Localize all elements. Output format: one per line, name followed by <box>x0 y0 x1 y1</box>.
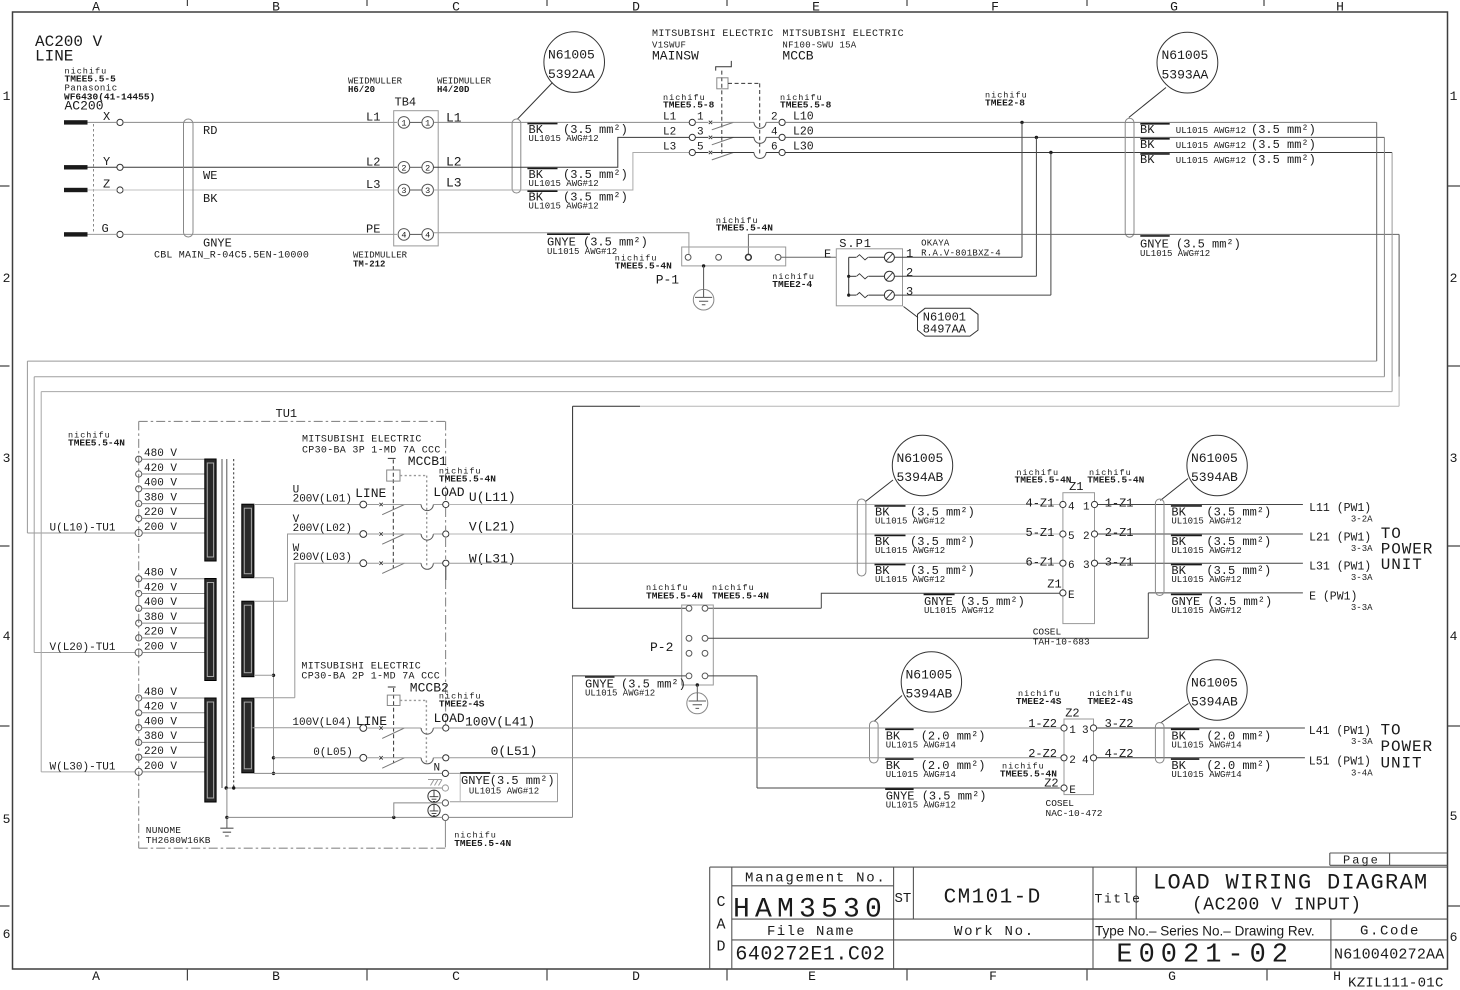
secondary coil 2 <box>242 601 254 677</box>
wire core ground <box>227 787 442 789</box>
svg-text:420 V: 420 V <box>144 582 177 594</box>
svg-text:400 V: 400 V <box>144 597 177 609</box>
svg-text:N61005: N61005 <box>548 48 595 63</box>
TB4 pin 3-3 <box>398 184 410 196</box>
wire P-2 to ground <box>696 685 698 693</box>
svg-text:UL1015 AWG#12: UL1015 AWG#12 <box>469 787 539 797</box>
label BK 3.5mm row2 <box>527 168 557 170</box>
Z1 pins right <box>1091 501 1097 507</box>
svg-text:Z2: Z2 <box>1065 707 1079 721</box>
terminal bar X <box>64 120 88 124</box>
label GNYE out E <box>1171 593 1202 595</box>
svg-text:3-4A: 3-4A <box>1351 769 1373 779</box>
svg-text:P-1: P-1 <box>656 273 680 288</box>
svg-text:200 V: 200 V <box>144 522 177 534</box>
MCCB1 operator square <box>387 470 400 481</box>
leader SP1 to balloon <box>904 307 919 318</box>
SP1 element row1 <box>849 256 857 258</box>
svg-text:UL1015 AWG#12: UL1015 AWG#12 <box>875 517 945 527</box>
svg-text:5: 5 <box>1068 531 1075 543</box>
wire up to e1 <box>394 803 443 818</box>
svg-text:2: 2 <box>906 266 913 280</box>
MCCB2 pole 1 <box>360 725 367 732</box>
label BK row L11 <box>875 505 906 507</box>
svg-text:Title: Title <box>1095 892 1142 907</box>
svg-text:5: 5 <box>697 142 704 154</box>
svg-text:(3.5 mm²): (3.5 mm²) <box>1251 138 1316 152</box>
wire wrap BK1 horizontal + left drop <box>27 361 1376 533</box>
svg-text:A: A <box>92 0 100 15</box>
svg-text:L3: L3 <box>446 176 462 191</box>
svg-text:N61005: N61005 <box>1162 48 1209 63</box>
svg-text:TMEE5.5-8: TMEE5.5-8 <box>780 99 832 110</box>
svg-text:4: 4 <box>425 230 430 240</box>
svg-text:6: 6 <box>1450 930 1458 945</box>
svg-text:5: 5 <box>3 812 11 827</box>
svg-text:(AC200 V INPUT): (AC200 V INPUT) <box>1192 896 1362 916</box>
Z1 pins left <box>1060 501 1066 507</box>
svg-text:0(L05): 0(L05) <box>313 747 353 759</box>
svg-text:220 V: 220 V <box>144 627 177 639</box>
TITLE BLOCK <box>710 853 1448 969</box>
svg-text:GNYE: GNYE <box>203 237 232 251</box>
svg-text:TMEE2-4: TMEE2-4 <box>772 279 812 290</box>
svg-text:400 V: 400 V <box>144 716 177 728</box>
cable oval z1 right <box>1155 499 1164 596</box>
svg-text:5394AB: 5394AB <box>897 470 944 485</box>
wire Z to TB4 <box>88 189 398 191</box>
SP1 element row3 <box>849 294 857 296</box>
balloon N61005 5394AB z2 right <box>1187 660 1247 720</box>
MCCB linkage dashed <box>728 83 760 155</box>
svg-text:W(L30)-TU1: W(L30)-TU1 <box>50 762 116 774</box>
svg-text:420 V: 420 V <box>144 463 177 475</box>
svg-text:Z1: Z1 <box>1069 480 1083 494</box>
label BK 2.0 row L51 <box>885 758 913 760</box>
svg-text:MITSUBISHI ELECTRIC: MITSUBISHI ELECTRIC <box>782 29 904 40</box>
leader to cable 3 <box>1129 88 1166 118</box>
svg-text:TB4: TB4 <box>395 96 417 110</box>
label BK UL1015 row2 <box>1140 138 1169 140</box>
svg-text:1: 1 <box>1083 502 1090 514</box>
svg-text:3-3A: 3-3A <box>1351 603 1373 613</box>
leader z2 right <box>1161 704 1189 724</box>
labels L1 L2 L3 right of TB4 <box>446 111 462 191</box>
earth terminal circle 1 <box>428 790 440 802</box>
node common to N <box>272 772 275 775</box>
primary tap group V <box>135 576 142 657</box>
svg-text:200 V: 200 V <box>144 642 177 654</box>
svg-text:3: 3 <box>3 451 11 466</box>
svg-text:TMEE2-8: TMEE2-8 <box>985 97 1025 108</box>
svg-text:OKAYA: OKAYA <box>921 238 950 248</box>
svg-text:H: H <box>1336 0 1344 15</box>
node L05 tap <box>272 756 275 759</box>
svg-text:5394AB: 5394AB <box>1191 695 1238 710</box>
node junction L20 to SP1 <box>1035 136 1038 139</box>
svg-text:UL1015 AWG#12: UL1015 AWG#12 <box>585 689 655 699</box>
svg-text:4: 4 <box>1082 755 1089 767</box>
svg-text:1: 1 <box>1450 89 1458 104</box>
svg-text:L30: L30 <box>793 141 814 154</box>
wire sec3 100V tap <box>253 727 361 729</box>
svg-text:480 V: 480 V <box>144 687 177 699</box>
MCCB1 trip dotted <box>400 476 427 566</box>
connector P-1 <box>682 247 786 266</box>
svg-text:UL1015 AWG#14: UL1015 AWG#14 <box>1171 770 1241 780</box>
svg-text:4-Z2: 4-Z2 <box>1105 747 1134 761</box>
svg-text:E: E <box>1068 590 1075 602</box>
label BK UL1015 row1 <box>1140 123 1169 125</box>
svg-text:C: C <box>452 969 460 984</box>
svg-text:BK: BK <box>1140 138 1155 152</box>
svg-text:L3: L3 <box>366 178 380 192</box>
label BK out L41 <box>1171 728 1199 730</box>
svg-text:D: D <box>716 939 725 956</box>
svg-text:UL1015 AWG#12: UL1015 AWG#12 <box>529 179 599 189</box>
svg-text:A: A <box>716 917 725 934</box>
cable oval z2 right <box>1155 723 1164 764</box>
transformer TU1 dash-dot enclosure <box>139 421 446 848</box>
svg-text:(3.5 mm²): (3.5 mm²) <box>1251 153 1316 167</box>
balloon N61005 5394AB z2 left <box>901 652 961 712</box>
svg-text:0(L51): 0(L51) <box>491 744 538 759</box>
svg-text:G.Code: G.Code <box>1360 924 1420 940</box>
terminal bar Z <box>64 188 88 192</box>
wire wrap GNYE right <box>1398 234 1400 376</box>
svg-text:N61005: N61005 <box>1191 676 1238 691</box>
Z2 pin numbers <box>1069 725 1089 797</box>
svg-text:200 V: 200 V <box>144 761 177 773</box>
svg-text:6-Z1: 6-Z1 <box>1026 556 1055 570</box>
MCCB2 linkage dashed <box>393 688 395 763</box>
svg-text:TMEE5.5-4N: TMEE5.5-4N <box>646 590 703 601</box>
svg-text:100V(L41): 100V(L41) <box>465 715 535 730</box>
wire below W L31 circle <box>445 566 447 580</box>
wire sec U to MCCB1 <box>254 504 360 506</box>
svg-text:UL1015 AWG#12: UL1015 AWG#12 <box>1176 126 1246 136</box>
node e-junction <box>392 816 395 819</box>
svg-text:UL1015 AWG#12: UL1015 AWG#12 <box>886 800 956 810</box>
wire sec2 bottom link <box>254 674 274 676</box>
svg-text:1-Z1: 1-Z1 <box>1105 497 1134 511</box>
svg-text:3-Z1: 3-Z1 <box>1105 556 1134 570</box>
svg-text:UL1015 AWG#12: UL1015 AWG#12 <box>547 247 617 257</box>
svg-text:200V(L01): 200V(L01) <box>293 494 352 506</box>
svg-text:RD: RD <box>203 124 217 138</box>
label BK UL1015 row3 <box>1140 153 1169 155</box>
svg-text:Type No.– Series No.– Drawing: Type No.– Series No.– Drawing Rev. <box>1095 923 1315 938</box>
wire secondary common bus <box>254 578 274 774</box>
label GNYE row E z1 <box>924 593 955 595</box>
wire SP1 drop 1 <box>1021 122 1023 257</box>
svg-text:3: 3 <box>906 285 913 299</box>
svg-text:H6/20: H6/20 <box>348 85 375 95</box>
svg-text:UL1015 AWG#12: UL1015 AWG#12 <box>875 575 945 585</box>
wire SP1 drop 2 <box>1035 137 1037 276</box>
balloon N61001 8497AA <box>918 308 979 336</box>
svg-text:LINE: LINE <box>355 486 386 501</box>
svg-text:N610040272AA: N610040272AA <box>1334 947 1444 964</box>
primary tap group W <box>135 695 142 776</box>
wire L30 <box>766 152 1392 154</box>
svg-text:UL1015 AWG#12: UL1015 AWG#12 <box>1171 606 1241 616</box>
svg-text:UL1015 AWG#14: UL1015 AWG#14 <box>886 741 956 751</box>
wire wrap BK3 right <box>1391 153 1393 392</box>
svg-text:3-2A: 3-2A <box>1351 515 1373 525</box>
svg-text:2-Z2: 2-Z2 <box>1028 747 1057 761</box>
svg-text:4-Z1: 4-Z1 <box>1026 497 1055 511</box>
svg-text:UL1015 AWG#12: UL1015 AWG#12 <box>1140 249 1210 259</box>
transformer core lines <box>222 459 227 788</box>
svg-text:2: 2 <box>1083 531 1090 543</box>
svg-text:2: 2 <box>1069 755 1076 767</box>
Z2 pins left <box>1061 725 1067 731</box>
svg-text:3-3A: 3-3A <box>1351 573 1373 583</box>
wire X to TB4 <box>88 121 398 123</box>
svg-text:L20: L20 <box>793 125 814 138</box>
svg-text:5: 5 <box>1450 809 1458 824</box>
svg-text:POWER: POWER <box>1381 738 1434 756</box>
svg-text:U(L11): U(L11) <box>469 490 516 505</box>
noise filter Z2 box <box>1064 719 1094 795</box>
svg-text:U(L10)-TU1: U(L10)-TU1 <box>50 523 116 535</box>
svg-text:B: B <box>272 969 280 984</box>
svg-text:3: 3 <box>1083 560 1090 572</box>
svg-text:1: 1 <box>3 89 11 104</box>
svg-text:6: 6 <box>1068 560 1075 572</box>
svg-text:H4/20D: H4/20D <box>437 85 470 95</box>
svg-text:220 V: 220 V <box>144 746 177 758</box>
primary coil W <box>205 698 216 802</box>
SP1 element row2 <box>849 275 857 277</box>
wire sec3 bottom to N <box>254 772 443 774</box>
svg-text:TMEE2-4S: TMEE2-4S <box>439 698 485 709</box>
wire L3 TB4 to MAINSW <box>434 153 690 191</box>
label nichifu TMEE5.5-5 Panasonic WF6430 AC200 <box>64 67 155 114</box>
svg-text:2: 2 <box>425 163 430 173</box>
svg-text:UL1015 AWG#12: UL1015 AWG#12 <box>529 202 599 212</box>
ground symbol P-1 <box>693 289 714 310</box>
wire P-1 to ground <box>703 266 705 290</box>
svg-text:4: 4 <box>1068 502 1075 514</box>
secondary coil 3 <box>242 698 254 773</box>
noise filter Z1 box <box>1063 493 1095 624</box>
label BK row L21 <box>875 534 906 536</box>
svg-text:6: 6 <box>771 142 778 154</box>
svg-text:3: 3 <box>425 186 430 196</box>
label BK 3.5mm row1 <box>527 123 557 125</box>
svg-text:TU1: TU1 <box>276 407 298 421</box>
svg-text:L21 (PW1): L21 (PW1) <box>1309 532 1371 545</box>
svg-text:4: 4 <box>3 629 11 644</box>
svg-text:D: D <box>632 0 640 15</box>
svg-text:C: C <box>452 0 460 15</box>
primary coil U <box>205 459 216 561</box>
svg-text:L11 (PW1): L11 (PW1) <box>1309 502 1371 515</box>
wire L11 Z1 to out <box>1098 504 1303 506</box>
svg-text:P-2: P-2 <box>650 640 673 655</box>
svg-text:UL1015 AWG#12: UL1015 AWG#12 <box>1171 517 1241 527</box>
svg-text:File Name: File Name <box>767 924 855 940</box>
svg-text:2: 2 <box>771 111 778 123</box>
svg-text:380 V: 380 V <box>144 492 177 504</box>
svg-text:UL1015 AWG#12: UL1015 AWG#12 <box>1171 546 1241 556</box>
title block text <box>716 854 1444 990</box>
MCCB2 trip dotted <box>400 700 426 763</box>
svg-text:TMEE5.5-4N: TMEE5.5-4N <box>1087 475 1144 486</box>
svg-text:L31 (PW1): L31 (PW1) <box>1309 561 1371 574</box>
secondary coil 1 <box>242 504 254 578</box>
wire P-1 E to SP1 <box>781 256 836 258</box>
wire GNYE drop to P-2 <box>573 406 686 608</box>
cable oval z2 left <box>870 721 879 763</box>
wire 0V L05 <box>274 757 361 759</box>
dashed link line of plug <box>93 124 95 233</box>
wire E out <box>1148 592 1303 594</box>
svg-text:TO: TO <box>1381 722 1402 740</box>
svg-text:L1: L1 <box>366 111 380 125</box>
svg-text:2-Z1: 2-Z1 <box>1105 526 1134 540</box>
svg-text:TMEE5.5-4N: TMEE5.5-4N <box>716 223 773 234</box>
svg-text:A: A <box>92 969 100 984</box>
terminal e2 <box>442 814 448 820</box>
ground symbol P-2 <box>687 693 708 714</box>
MCCB2 operator square <box>387 695 400 705</box>
wire PE TB4 to P-1 <box>434 233 689 255</box>
balloon N61005 5392AA <box>544 32 605 93</box>
svg-text:N: N <box>434 763 441 775</box>
svg-text:640272E1.C02: 640272E1.C02 <box>735 944 885 967</box>
svg-text:TM-212: TM-212 <box>353 260 385 270</box>
Z2 pins right <box>1090 725 1096 731</box>
svg-text:TMEE2-4S: TMEE2-4S <box>1016 696 1062 707</box>
MAINSW handle <box>716 61 732 71</box>
svg-text:MITSUBISHI ELECTRIC: MITSUBISHI ELECTRIC <box>302 435 422 446</box>
terminal bar Y <box>64 165 88 169</box>
wire P-2 E2 return <box>708 593 1148 638</box>
svg-text:V(L21): V(L21) <box>469 519 516 534</box>
svg-text:3: 3 <box>401 186 406 196</box>
svg-text:TMEE2-4S: TMEE2-4S <box>1087 696 1133 707</box>
label BK out L51 <box>1171 758 1199 760</box>
svg-text:2: 2 <box>3 271 11 286</box>
wire wrap BK2 horizontal + left drop <box>34 377 1384 653</box>
transformer shield dotted <box>233 459 235 788</box>
svg-text:UNIT: UNIT <box>1381 755 1423 773</box>
leader z1 right <box>1160 479 1188 501</box>
svg-text:N61005: N61005 <box>1191 451 1238 466</box>
svg-text:TMEE5.5-4N: TMEE5.5-4N <box>68 437 125 448</box>
svg-text:UL1015 AWG#12: UL1015 AWG#12 <box>875 546 945 556</box>
wire G to TB4 <box>88 233 398 235</box>
svg-text:TAH-10-683: TAH-10-683 <box>1033 637 1090 648</box>
svg-text:E: E <box>808 969 816 984</box>
surge absorber S.P1 box <box>836 249 902 306</box>
Z1 pin numbers <box>1068 502 1090 602</box>
svg-text:4: 4 <box>401 230 406 240</box>
svg-text:Work No.: Work No. <box>954 924 1035 940</box>
wire N loop around GNYE label <box>449 773 558 801</box>
svg-text:380 V: 380 V <box>144 731 177 743</box>
wire SP1 drop 3 <box>1050 153 1052 296</box>
wire N to e2 outer <box>448 772 450 774</box>
cable marker oval 3 <box>1125 118 1134 237</box>
wire L31 Z1 to out <box>1098 562 1303 564</box>
svg-text:CM101-D: CM101-D <box>944 887 1042 910</box>
svg-text:HAM3530: HAM3530 <box>733 895 887 926</box>
label BK 2.0 row L41 <box>885 728 913 730</box>
label BK out L21 <box>1171 534 1202 536</box>
svg-text:1: 1 <box>697 111 704 123</box>
MCCB1 pole V <box>360 531 367 538</box>
label BK 3.5mm row3 <box>527 190 557 192</box>
svg-text:Management No.: Management No. <box>745 871 886 887</box>
svg-text:200V(L03): 200V(L03) <box>293 552 352 564</box>
ground symbol TU1 <box>226 817 228 828</box>
wire L51 Z2 to out <box>1097 757 1305 759</box>
wire sec W to MCCB1 <box>254 563 360 698</box>
svg-text:3: 3 <box>1082 725 1089 737</box>
label BK out L11 <box>1171 505 1202 507</box>
svg-text:MITSUBISHI ELECTRIC: MITSUBISHI ELECTRIC <box>652 29 774 40</box>
svg-text:WE: WE <box>203 169 217 183</box>
wire P-2 row4 GNYE <box>572 676 1060 788</box>
svg-text:L1: L1 <box>663 111 677 123</box>
MCCB2 pole 2 <box>360 754 367 761</box>
svg-text:N61005: N61005 <box>906 668 953 683</box>
svg-text:1: 1 <box>425 118 430 128</box>
svg-text:BK: BK <box>1140 123 1155 137</box>
svg-text:200V(L02): 200V(L02) <box>293 523 352 535</box>
svg-text:5-Z1: 5-Z1 <box>1026 526 1055 540</box>
primary coil V <box>205 579 216 681</box>
node P-2 ground junction <box>696 683 699 686</box>
wire L41 MCCB2 to Z2 <box>449 727 1061 729</box>
MAINSW operator square <box>717 78 728 89</box>
svg-text:B: B <box>272 0 280 15</box>
TB4 pin 2-2 <box>398 162 410 174</box>
svg-text:3-Z2: 3-Z2 <box>1105 717 1134 731</box>
svg-text:ST: ST <box>895 891 912 907</box>
svg-text:(3.5 mm²): (3.5 mm²) <box>1251 123 1316 137</box>
wire PE loop to right <box>748 234 1399 254</box>
MCCB cup pole3 <box>754 153 766 159</box>
cable marker oval 2 <box>512 119 521 193</box>
wire ground bus to terminals <box>227 816 442 818</box>
TB4 pin 1-1 <box>398 117 410 129</box>
svg-text:LINE: LINE <box>35 48 73 66</box>
svg-text:N61005: N61005 <box>897 451 944 466</box>
balloon N61005 5394AB z1 left <box>892 435 952 495</box>
svg-text:380 V: 380 V <box>144 612 177 624</box>
svg-text:E (PW1): E (PW1) <box>1309 590 1357 603</box>
svg-text:CBL MAIN_R-04C5.5EN-10000: CBL MAIN_R-04C5.5EN-10000 <box>154 251 309 262</box>
svg-text:2: 2 <box>401 163 406 173</box>
wire sec V to MCCB1 <box>254 534 360 601</box>
terminal N <box>442 770 448 776</box>
wire L51 MCCB2 to Z2 <box>449 757 1061 759</box>
svg-text:L10: L10 <box>793 110 814 123</box>
wire L2 TB4 to MAINSW <box>434 137 690 167</box>
node P-1 ground junction <box>702 264 705 267</box>
svg-text:H: H <box>1333 969 1341 984</box>
svg-text:LOAD: LOAD <box>434 711 465 726</box>
svg-text:UL1015 AWG#14: UL1015 AWG#14 <box>886 770 956 780</box>
svg-text:G: G <box>1170 0 1178 15</box>
terminal e1 <box>442 800 448 806</box>
wire wrap BK2 right <box>1383 137 1385 376</box>
